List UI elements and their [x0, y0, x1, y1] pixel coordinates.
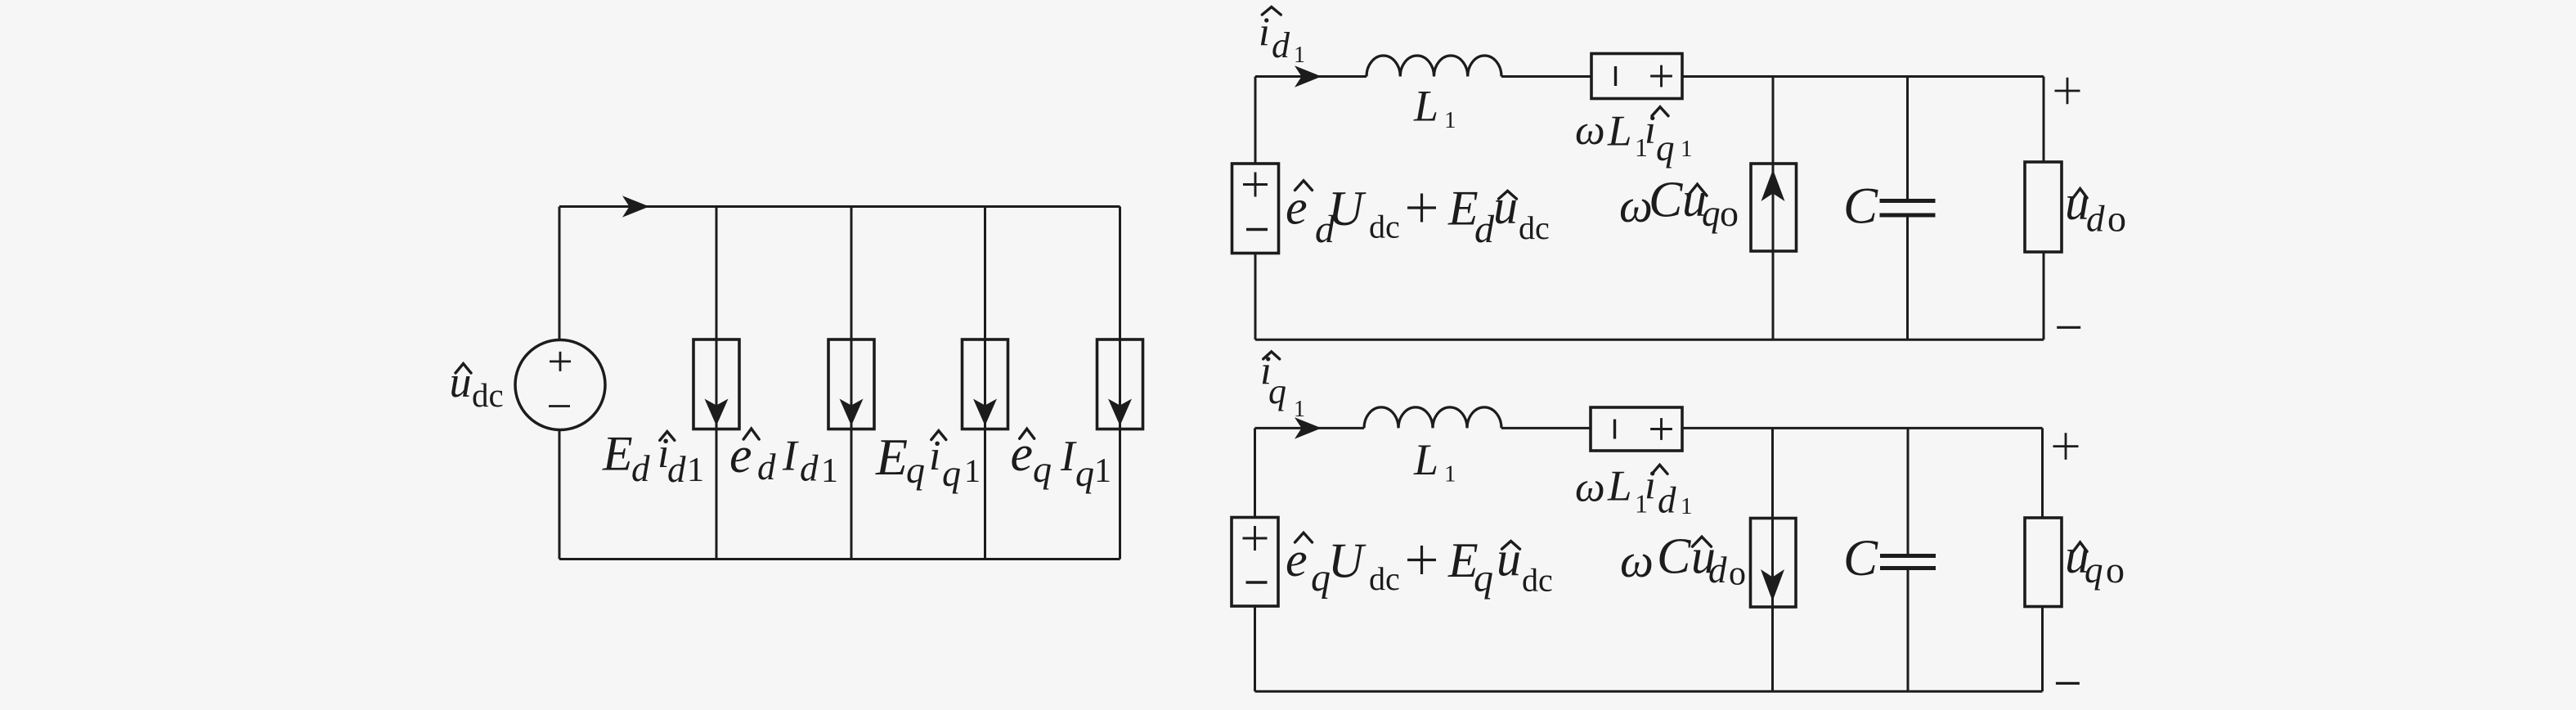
- svg-text:q: q: [1702, 193, 1721, 234]
- d-axis: top wire middle segment: [1501, 75, 1591, 78]
- svg-text:I: I: [782, 433, 799, 480]
- svg-text:ω: ω: [1575, 465, 1605, 511]
- svg-text:E: E: [1447, 182, 1479, 236]
- svg-text:U: U: [1328, 534, 1367, 588]
- controlled current source 1: box: [693, 339, 739, 429]
- q-axis: right edge upper wire: [2041, 428, 2044, 518]
- q-axis: load box: [2025, 518, 2062, 607]
- svg-text:L: L: [1607, 108, 1631, 155]
- svg-text:o: o: [2106, 549, 2125, 591]
- wire: bottom bus: [559, 558, 1120, 560]
- svg-text:q: q: [942, 452, 961, 494]
- svg-text:dc: dc: [1369, 560, 1400, 597]
- svg-text:dc: dc: [1522, 562, 1553, 599]
- svg-text:dc: dc: [1369, 209, 1400, 245]
- svg-text:C: C: [1657, 529, 1691, 585]
- d-axis: controlled current source arrow: [1761, 169, 1785, 201]
- d-axis: left edge lower wire: [1254, 254, 1257, 340]
- svg-text:e: e: [1011, 426, 1034, 482]
- d-axis: right edge upper wire: [2043, 77, 2045, 163]
- svg-text:U: U: [1328, 182, 1367, 236]
- d-axis: capacitor upper wire: [1906, 77, 1909, 201]
- q-axis: dependent voltage source box: [1591, 407, 1682, 451]
- controlled current source 4: down arrow: [1108, 399, 1132, 426]
- q-axis: right edge lower wire: [2041, 607, 2044, 692]
- d-axis: output minus polarity: [2057, 326, 2080, 329]
- svg-text:o: o: [1720, 192, 1739, 234]
- svg-text:e: e: [1286, 181, 1308, 235]
- q-axis: left edge lower wire: [1254, 606, 1256, 691]
- label u_qo (output, q-axis): [2073, 542, 2087, 551]
- svg-text:q: q: [2085, 550, 2103, 591]
- svg-text:C: C: [1843, 177, 1878, 235]
- wire: branch 3 vertical: [984, 207, 986, 559]
- svg-text:ω: ω: [1620, 534, 1654, 587]
- svg-text:1: 1: [1294, 397, 1305, 422]
- svg-text:1: 1: [1444, 461, 1456, 488]
- d-axis: input voltage source box: [1232, 164, 1279, 254]
- d-axis: load box: [2025, 162, 2062, 252]
- wire: left edge above source: [559, 207, 561, 340]
- d-axis: output plus polarity: [2055, 78, 2080, 105]
- svg-text:i: i: [1259, 8, 1270, 54]
- wire: top bus: [559, 205, 1120, 208]
- d-axis: dependent source minus bar: [1614, 66, 1617, 86]
- svg-text:1: 1: [964, 452, 981, 489]
- svg-text:C: C: [1649, 173, 1683, 228]
- q-axis: controlled current source box: [1751, 519, 1797, 608]
- controlled current source 2: box: [828, 339, 874, 429]
- svg-text:d: d: [757, 447, 776, 488]
- svg-text:E: E: [602, 427, 633, 481]
- svg-text:L: L: [1413, 435, 1438, 484]
- wire: left edge below source: [559, 429, 561, 559]
- wire: branch 4 vertical: [1119, 207, 1121, 559]
- label u_do (output, d-axis): [2073, 189, 2087, 198]
- svg-text:d: d: [1272, 25, 1290, 65]
- arrow: current direction on top bus: [622, 195, 649, 217]
- label u_dc: [456, 364, 471, 374]
- svg-text:d: d: [1658, 480, 1676, 521]
- q-axis: left edge upper wire: [1254, 428, 1256, 517]
- svg-text:1: 1: [1094, 452, 1111, 490]
- q-axis: top wire right segment: [1682, 427, 2043, 429]
- svg-text:1: 1: [1294, 43, 1305, 68]
- controlled current source 3: down arrow: [973, 399, 997, 426]
- svg-text:q: q: [1474, 557, 1493, 600]
- svg-text:1: 1: [1681, 493, 1693, 519]
- q-axis: capacitor top plate: [1880, 554, 1936, 558]
- svg-text:dc: dc: [1519, 209, 1550, 246]
- svg-text:1: 1: [687, 452, 704, 489]
- q-axis: top wire left segment: [1255, 427, 1365, 429]
- svg-text:d: d: [1474, 208, 1495, 251]
- d-axis: inductor L1: [1367, 56, 1501, 77]
- voltage source u_dc: minus mark: [549, 405, 570, 407]
- svg-text:q: q: [1075, 452, 1094, 494]
- svg-text:1: 1: [821, 452, 838, 490]
- q-axis: dependent source minus bar: [1613, 420, 1616, 439]
- d-axis: dependent voltage source box: [1591, 54, 1682, 99]
- label equation e_q U_dc + E_q u_dc (bottom): [1295, 532, 1313, 542]
- svg-text:u: u: [1497, 532, 1521, 586]
- d-axis: source plus mark: [1243, 173, 1268, 197]
- svg-text:I: I: [1060, 433, 1077, 480]
- label e_d I_d1: [743, 429, 759, 439]
- svg-text:L: L: [1607, 463, 1631, 510]
- q-axis: dependent source plus mark: [1650, 418, 1672, 440]
- d-axis: top wire right segment: [1682, 75, 2044, 78]
- q-axis: capacitor upper wire: [1907, 428, 1910, 555]
- svg-text:dc: dc: [472, 376, 504, 414]
- svg-text:d: d: [800, 448, 819, 489]
- svg-text:u: u: [450, 357, 472, 407]
- label equation e_d U_dc + E_d u_dc (top): [1295, 181, 1313, 191]
- d-axis: top wire left segment: [1255, 75, 1367, 78]
- svg-text:1: 1: [1681, 136, 1693, 162]
- d-axis: right edge lower wire: [2043, 252, 2045, 339]
- controlled current source 1: down arrow: [705, 399, 729, 426]
- svg-text:q: q: [1656, 128, 1675, 169]
- svg-text:i: i: [1645, 461, 1656, 507]
- q-axis: capacitor lower wire: [1907, 568, 1910, 692]
- d-axis: left edge upper wire: [1254, 77, 1257, 164]
- svg-text:d: d: [667, 449, 686, 490]
- svg-text:e: e: [729, 428, 752, 483]
- svg-text:o: o: [2107, 198, 2126, 240]
- d-axis: capacitor lower wire: [1906, 215, 1909, 339]
- svg-text:q: q: [1268, 371, 1286, 411]
- svg-text:e: e: [1286, 532, 1308, 586]
- d-axis: arrow input current: [1295, 65, 1322, 87]
- svg-text:q: q: [906, 449, 925, 491]
- svg-text:ω: ω: [1575, 107, 1605, 154]
- svg-text:d: d: [1708, 550, 1727, 591]
- q-axis: source plus mark: [1243, 526, 1268, 550]
- svg-text:o: o: [1729, 555, 1746, 593]
- q-axis: input voltage source box: [1232, 518, 1278, 607]
- d-axis: bottom wire: [1255, 339, 2044, 341]
- controlled current source 3: box: [963, 339, 1008, 429]
- svg-text:E: E: [875, 428, 908, 486]
- svg-text:L: L: [1413, 82, 1438, 131]
- wire: branch 1 vertical: [716, 207, 718, 559]
- q-axis: output plus polarity: [2053, 433, 2079, 460]
- d-axis: controlled current source box: [1751, 164, 1797, 251]
- q-axis: controlled current source arrow: [1761, 569, 1784, 601]
- voltage source u_dc: circle: [515, 340, 605, 430]
- label e_q I_q1: [1020, 429, 1034, 438]
- wire: branch 2 vertical: [850, 207, 853, 559]
- d-axis: controlled current source branch wire: [1772, 77, 1775, 340]
- svg-text:d: d: [631, 448, 650, 489]
- q-axis: capacitor bottom plate: [1880, 566, 1936, 570]
- svg-text:u: u: [1493, 180, 1518, 234]
- svg-text:C: C: [1843, 529, 1878, 586]
- q-axis: source minus mark: [1246, 581, 1268, 583]
- controlled current source 2: down arrow: [840, 399, 864, 426]
- d-axis: capacitor top plate: [1880, 199, 1936, 203]
- d-axis: dependent source plus mark: [1650, 65, 1672, 88]
- d-axis: source minus mark: [1246, 228, 1268, 231]
- voltage source u_dc: plus mark: [550, 352, 571, 371]
- q-axis: top wire middle segment: [1501, 427, 1591, 429]
- q-axis: arrow input current: [1295, 417, 1322, 438]
- controlled current source 4: box: [1097, 339, 1143, 429]
- q-axis: bottom wire: [1255, 690, 2043, 693]
- svg-text:1: 1: [1444, 107, 1456, 133]
- q-axis: controlled current source branch wire: [1771, 428, 1774, 691]
- svg-text:d: d: [2086, 199, 2105, 240]
- q-axis: output minus polarity: [2056, 682, 2080, 685]
- svg-text:ω: ω: [1619, 179, 1653, 232]
- q-axis: inductor L1: [1364, 407, 1501, 429]
- svg-text:q: q: [1033, 448, 1052, 490]
- d-axis: capacitor bottom plate: [1880, 213, 1936, 218]
